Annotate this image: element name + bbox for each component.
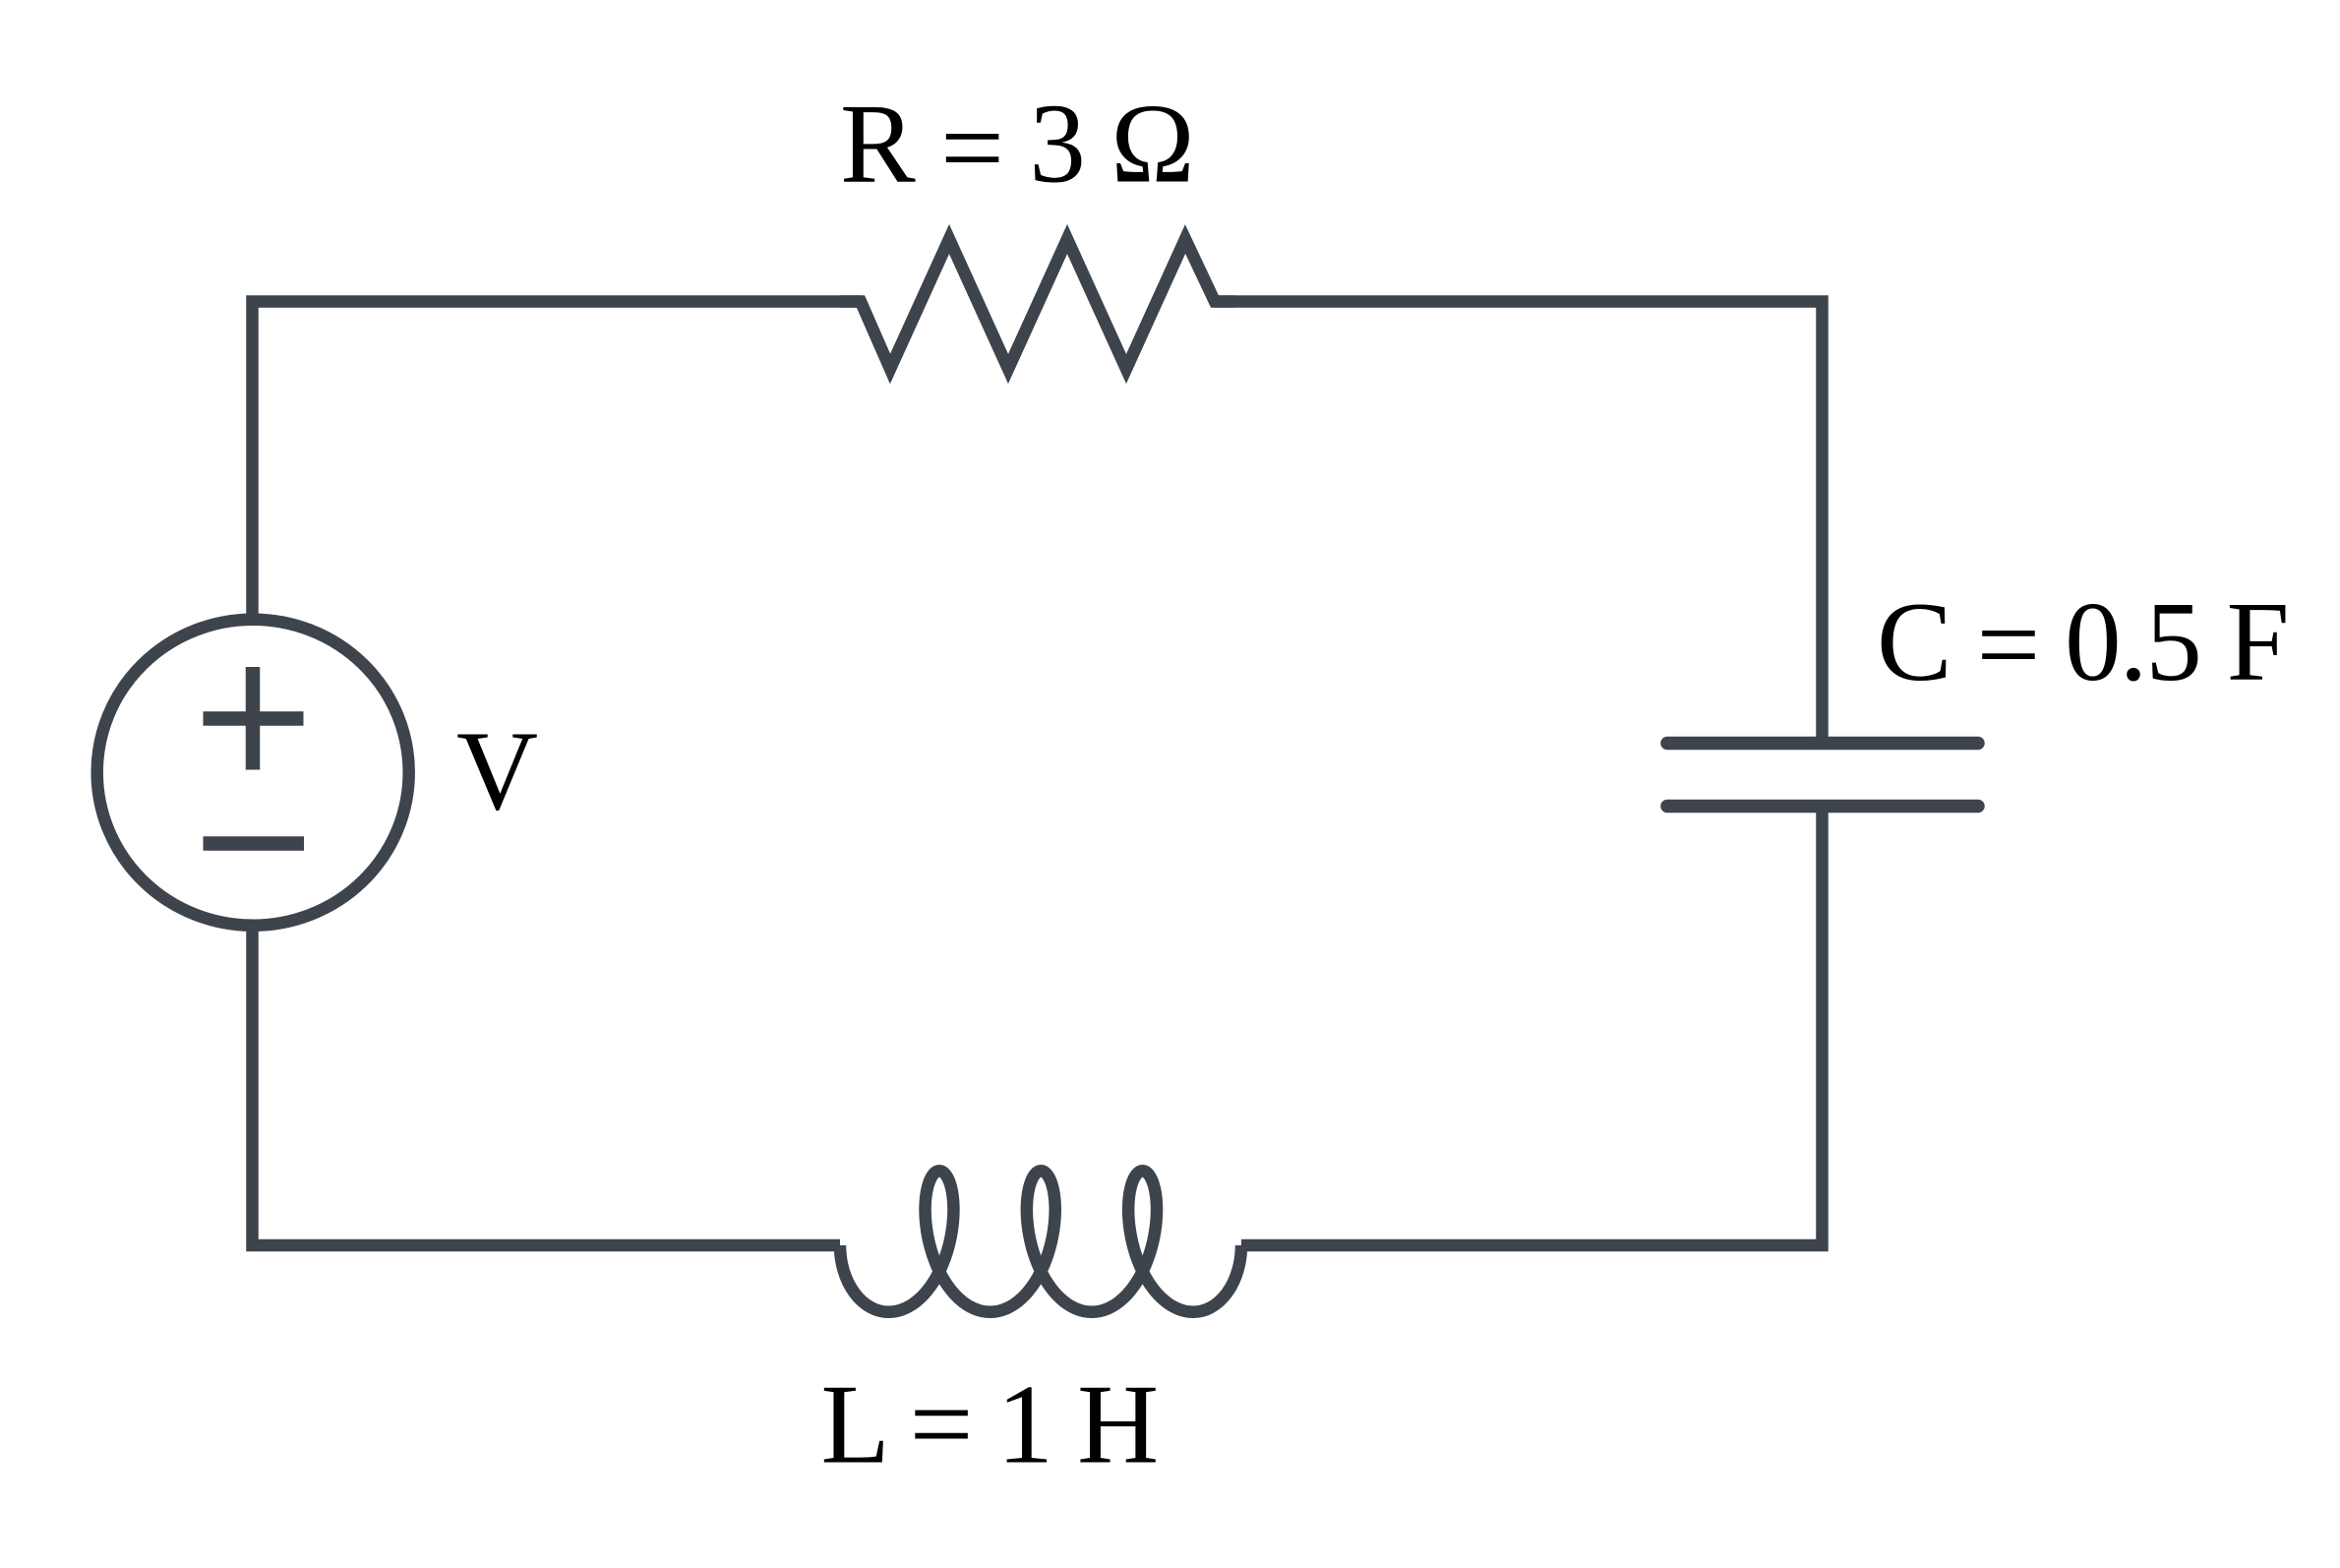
wire top-left (left upper vertical + top-left horizontal run) xyxy=(253,302,862,621)
wire right-lower (right lower vertical + bottom-right horizontal run) xyxy=(1241,812,1823,1245)
wire top-right (top horizontal run + right upper vertical) xyxy=(1215,302,1823,739)
svg-text:V: V xyxy=(456,709,538,834)
resistor R xyxy=(841,239,1234,369)
inductor L coil xyxy=(840,1171,1241,1312)
svg-text:R = 3 Ω: R = 3 Ω xyxy=(840,82,1193,211)
capacitor C top plate xyxy=(1667,737,1978,751)
svg-text:L = 1 H: L = 1 H xyxy=(821,1362,1157,1487)
voltage source plus sign xyxy=(204,667,304,770)
voltage source V circle xyxy=(97,620,409,926)
capacitor C bottom plate xyxy=(1667,800,1978,814)
wire bottom-left (bottom horizontal run + left lower vertical) xyxy=(253,927,841,1246)
svg-text:C = 0.5 F: C = 0.5 F xyxy=(1877,579,2288,707)
voltage source minus sign xyxy=(204,836,305,851)
